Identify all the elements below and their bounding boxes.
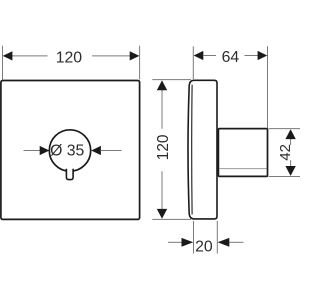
svg-text:120: 120 xyxy=(155,135,172,161)
svg-text:64: 64 xyxy=(222,49,240,66)
svg-text:Ø 35: Ø 35 xyxy=(50,142,84,159)
svg-text:42: 42 xyxy=(277,144,294,161)
svg-text:120: 120 xyxy=(56,49,83,66)
svg-text:20: 20 xyxy=(195,238,213,255)
